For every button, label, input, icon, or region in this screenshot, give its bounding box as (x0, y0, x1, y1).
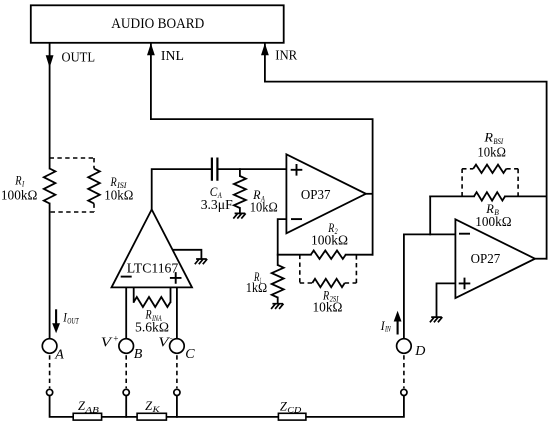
svg-text:100kΩ: 100kΩ (311, 234, 348, 249)
svg-text:10kΩ: 10kΩ (477, 145, 506, 160)
svg-text:A: A (54, 347, 64, 362)
svg-text:R: R (15, 173, 22, 188)
svg-text:IN: IN (384, 325, 391, 334)
svg-text:INR: INR (275, 48, 298, 63)
svg-text:V: V (101, 335, 113, 350)
svg-text:OP27: OP27 (471, 252, 501, 267)
svg-text:100kΩ: 100kΩ (475, 214, 511, 229)
svg-text:100kΩ: 100kΩ (1, 188, 38, 203)
svg-text:−: − (170, 333, 173, 343)
svg-text:R: R (110, 174, 117, 189)
svg-text:K: K (151, 405, 160, 414)
svg-text:R: R (483, 130, 493, 145)
svg-text:OP37: OP37 (301, 188, 331, 203)
svg-text:INL: INL (161, 49, 184, 64)
svg-text:V: V (158, 335, 170, 350)
svg-text:10kΩ: 10kΩ (104, 189, 133, 204)
svg-text:C: C (210, 184, 218, 199)
svg-text:AB: AB (84, 405, 99, 414)
svg-text:R: R (145, 307, 152, 322)
svg-text:10kΩ: 10kΩ (250, 201, 278, 216)
svg-text:AUDIO BOARD: AUDIO BOARD (111, 16, 204, 32)
svg-text:D: D (414, 344, 425, 359)
svg-text:C: C (185, 347, 195, 362)
svg-text:1kΩ: 1kΩ (246, 281, 268, 296)
svg-text:10kΩ: 10kΩ (313, 301, 343, 316)
svg-text:+: + (113, 333, 118, 343)
svg-text:OUT: OUT (67, 316, 79, 325)
svg-text:5.6kΩ: 5.6kΩ (135, 321, 169, 336)
svg-text:OUTL: OUTL (62, 50, 96, 65)
svg-text:LTC1167: LTC1167 (127, 261, 179, 276)
svg-text:B: B (134, 347, 143, 362)
svg-text:CD: CD (287, 406, 301, 415)
svg-text:3.3μF: 3.3μF (201, 198, 233, 213)
